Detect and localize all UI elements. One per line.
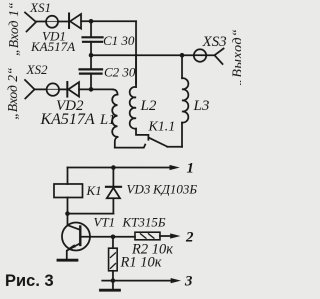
wire rail 3 — [102, 280, 171, 282]
svg-text:XS1: XS1 — [29, 0, 51, 15]
ground (emitter) — [58, 259, 77, 262]
connector XS1 circle — [46, 16, 58, 28]
connector XS1 fork — [25, 12, 36, 31]
wire crossing output line — [135, 55, 137, 87]
wire collector rail — [67, 213, 113, 215]
node base — [111, 234, 116, 239]
connector XS2 fork — [25, 80, 35, 99]
connector XS3 circle — [194, 49, 206, 61]
wire L2 bottom to contact — [136, 129, 148, 140]
node L3 top — [180, 53, 185, 58]
relay coil K1 — [54, 184, 83, 198]
node collector — [65, 211, 70, 216]
svg-text:„Вход 2“: „Вход 2“ — [5, 67, 20, 119]
wire circle to VD2 — [59, 88, 67, 90]
svg-text:КА517А: КА517А — [30, 39, 75, 54]
wire output line — [91, 54, 214, 56]
node R1 bottom — [111, 278, 116, 283]
inductor L1 — [113, 89, 118, 94]
diode VD1 — [68, 13, 70, 27]
svg-text:XS2: XS2 — [26, 62, 48, 77]
svg-text:VD3: VD3 — [126, 182, 150, 197]
connector XS2 circle — [47, 83, 59, 95]
wire node B down to C2 — [90, 55, 92, 69]
wire blade to L3 bottom — [167, 146, 182, 148]
wire C2 to node C — [90, 74, 92, 90]
svg-text:XS3: XS3 — [202, 34, 227, 50]
node A — [89, 19, 94, 24]
wire relay to collector rail — [66, 197, 68, 213]
inductor L3 — [181, 55, 183, 78]
inductor L2 — [130, 87, 136, 129]
svg-text:VT1: VT1 — [93, 214, 115, 229]
relay contact K1.1 rail from L1 — [115, 145, 145, 148]
svg-text:КА517А: КА517А — [40, 111, 95, 128]
svg-text:L3: L3 — [193, 98, 210, 114]
node VD3 top — [111, 165, 116, 170]
wire rail1 down to relay — [66, 167, 68, 184]
resistor R1 — [112, 237, 114, 248]
wire C1 to node B — [90, 42, 92, 55]
svg-text:К1.1: К1.1 — [148, 120, 176, 135]
svg-text:„Выход“: „Выход“ — [231, 28, 242, 86]
arrow 2 — [170, 233, 180, 238]
svg-text:L2: L2 — [140, 98, 157, 114]
wire VD2 to node C and L1 — [79, 88, 113, 90]
connector XS3 fork — [215, 49, 224, 65]
capacitor C1 — [83, 36, 103, 38]
arrow 1 — [169, 165, 179, 170]
svg-text:КД103Б: КД103Б — [152, 182, 197, 197]
relay contact K1.1 blade — [149, 138, 168, 147]
svg-text:КТ315Б: КТ315Б — [121, 215, 165, 230]
diode VD2 — [66, 82, 68, 97]
wire node A down to C1 — [90, 21, 92, 37]
ground (R1) — [112, 281, 114, 290]
svg-text:1: 1 — [186, 161, 194, 177]
svg-text:L1: L1 — [99, 112, 115, 128]
wire circle to VD1 — [58, 20, 69, 22]
transistor VT1 — [62, 222, 90, 250]
diode VD3 — [112, 167, 114, 186]
svg-text:C2 30: C2 30 — [104, 64, 136, 79]
wire VD1 to node A and corner — [81, 20, 136, 22]
svg-text:К1: К1 — [85, 183, 101, 198]
node C — [89, 87, 94, 92]
node B — [89, 53, 94, 58]
capacitor C2 — [80, 68, 103, 70]
resistor R2 — [135, 232, 160, 240]
wire XS2 to circle — [35, 88, 47, 90]
svg-text:„Вход 1“: „Вход 1“ — [6, 2, 21, 56]
svg-text:3: 3 — [184, 274, 193, 290]
svg-text:Рис. 3: Рис. 3 — [5, 272, 54, 290]
wire base — [80, 236, 135, 238]
wire top corner down — [135, 21, 137, 84]
svg-text:2: 2 — [185, 230, 194, 246]
svg-text:C1 30: C1 30 — [103, 33, 135, 48]
arrow 3 — [171, 278, 181, 283]
wire XS1 to circle — [36, 20, 46, 22]
svg-text:R1 10к: R1 10к — [119, 254, 161, 270]
wire rail 1 — [67, 166, 170, 168]
